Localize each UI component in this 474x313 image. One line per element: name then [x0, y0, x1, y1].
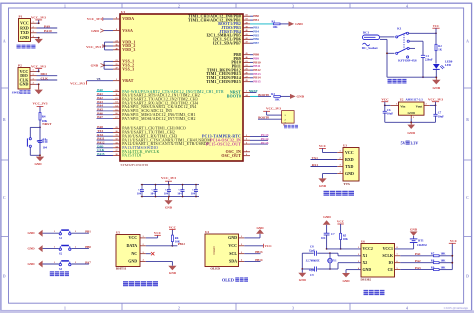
resistor R9 10K net PA3 — [400, 266, 452, 271]
wire and net label PB5 — [250, 33, 259, 37]
svg-text:VCC_3V3: VCC_3V3 — [86, 45, 101, 49]
resistor R7 10K net PA1 — [400, 252, 452, 257]
svg-text:OLED: OLED — [210, 267, 220, 271]
svg-text:C1: C1 — [43, 137, 47, 141]
wire net label PA10 — [37, 29, 58, 33]
svg-text:10K: 10K — [175, 240, 181, 244]
sensor U5 pins — [126, 235, 145, 264]
svg-text:GND: GND — [91, 64, 99, 68]
svg-text:NRST: NRST — [249, 89, 259, 93]
svg-text:PB1: PB1 — [253, 18, 259, 22]
mcu U1 left pin stubs — [113, 19, 120, 156]
caption power circuit — [388, 79, 407, 84]
svg-text:U1: U1 — [121, 10, 125, 14]
svg-text:104: 104 — [43, 145, 48, 149]
svg-text:31: 31 — [115, 135, 117, 137]
svg-text:BOOT0: BOOT0 — [258, 115, 269, 119]
power port VCC_3V3 at P2 — [31, 64, 46, 72]
svg-text:VCC_3V3: VCC_3V3 — [266, 107, 281, 111]
svg-text:2: 2 — [75, 262, 76, 264]
svg-text:A: A — [3, 40, 6, 44]
wires K1 outputs — [409, 32, 437, 78]
wire and net label DIO — [97, 144, 114, 148]
wire and net label PB1 — [250, 18, 259, 22]
svg-text:1: 1 — [116, 79, 117, 81]
svg-text:PA9: PA9 — [44, 24, 50, 28]
display U4 vertical label — [212, 245, 216, 254]
svg-text:CSDN @GkDesign: CSDN @GkDesign — [444, 306, 469, 310]
svg-text:SWD: SWD — [12, 90, 20, 94]
svg-text:Vin: Vin — [400, 105, 405, 109]
svg-text:PB0: PB0 — [85, 245, 91, 249]
svg-text:GND: GND — [408, 111, 416, 115]
svg-text:GND: GND — [295, 22, 303, 26]
svg-text:CLK: CLK — [41, 76, 49, 80]
ground reset — [34, 155, 44, 166]
svg-text:VCC: VCC — [450, 239, 458, 243]
svg-text:U6: U6 — [361, 240, 365, 244]
power port VCC at U2 — [381, 97, 389, 105]
wire and net label PC14 — [250, 137, 269, 141]
power port VCC pull-ups — [449, 239, 458, 270]
svg-text:GND: GND — [407, 131, 415, 135]
svg-text:DS1302: DS1302 — [361, 278, 372, 282]
wire BOOT0 to boot header — [258, 115, 282, 119]
svg-text:104: 104 — [137, 193, 142, 196]
svg-text:2: 2 — [32, 26, 33, 28]
svg-text:SCLK: SCLK — [382, 254, 393, 258]
switch K1 KFT-DIP — [396, 27, 417, 63]
svg-text:Vout: Vout — [416, 105, 424, 109]
svg-text:R4: R4 — [42, 115, 46, 119]
svg-text:SDA: SDA — [229, 259, 237, 264]
ground crystal — [298, 268, 306, 282]
svg-text:PB15: PB15 — [253, 80, 261, 84]
ground U4 — [244, 226, 264, 238]
ground DS1302 — [342, 270, 361, 283]
svg-text:1: 1 — [413, 117, 414, 119]
svg-text:GND: GND — [169, 271, 177, 275]
svg-text:GND: GND — [20, 82, 29, 87]
wire and net label PB9 — [250, 57, 259, 61]
svg-text:VCC_3V3: VCC_3V3 — [31, 16, 46, 20]
wire and net label PB3 — [250, 26, 259, 30]
svg-text:10K: 10K — [441, 253, 447, 256]
power port VCC_3V3 at VDDA — [87, 17, 113, 21]
svg-text:VB: VB — [97, 78, 101, 81]
svg-text:KFT-DIP-4X8: KFT-DIP-4X8 — [398, 58, 417, 62]
svg-text:PA10: PA10 — [44, 29, 52, 33]
svg-text:VCC: VCC — [129, 235, 138, 240]
wire and net label TX1 — [97, 129, 114, 133]
svg-text:GND: GND — [319, 184, 327, 188]
wire and net label PB6 — [250, 37, 259, 41]
svg-text:PA7: PA7 — [97, 115, 103, 119]
svg-text:10uF: 10uF — [438, 114, 444, 118]
power port VCC_3V3 reset — [33, 101, 48, 112]
wire and net label PA0 — [97, 88, 114, 92]
svg-text:DATA: DATA — [126, 243, 137, 248]
svg-text:GND: GND — [342, 279, 350, 283]
svg-text:21: 21 — [245, 61, 247, 63]
svg-text:CE: CE — [388, 268, 394, 272]
power port VCC_3V3 at U2 out — [428, 97, 443, 114]
svg-text:U4: U4 — [205, 230, 209, 234]
svg-text:VCC: VCC — [345, 150, 354, 155]
svg-text:GND: GND — [297, 95, 305, 99]
ground U5 — [146, 261, 177, 275]
svg-text:B: B — [466, 118, 469, 122]
svg-text:P1: P1 — [19, 15, 23, 19]
svg-text:TTS: TTS — [344, 182, 351, 186]
svg-text:OLED: OLED — [212, 245, 216, 254]
svg-text:R8: R8 — [431, 259, 435, 262]
wire and net label PC15 — [250, 141, 269, 145]
ground U2 — [407, 122, 415, 135]
wire and net label PB8 — [250, 53, 259, 57]
svg-text:4: 4 — [406, 306, 408, 310]
svg-text:GND: GND — [299, 278, 307, 282]
crystal Y1 32.768kHZ — [302, 245, 337, 277]
svg-text:I2C1_SDA/PB7: I2C1_SDA/PB7 — [213, 41, 241, 45]
wire and net label PB0 — [250, 14, 259, 18]
svg-text:GND: GND — [433, 86, 441, 90]
wire and net label RX1 — [97, 133, 114, 137]
svg-text:VBAT: VBAT — [122, 79, 133, 83]
svg-text:GND: GND — [28, 247, 36, 251]
svg-text:42: 42 — [245, 38, 247, 40]
connector P2 pins — [20, 69, 37, 87]
svg-text:CR2032: CR2032 — [417, 243, 428, 247]
svg-text:GND: GND — [410, 227, 418, 231]
svg-text:2: 2 — [246, 135, 247, 137]
svg-text:2: 2 — [142, 244, 143, 246]
svg-text:12: 12 — [115, 98, 117, 100]
connector U3 pins — [337, 150, 354, 176]
wire and net label PB4 — [250, 30, 259, 34]
mcu U1 right pin stubs — [243, 16, 250, 156]
wire net label PA9 — [37, 24, 58, 28]
caption serial download port — [17, 45, 36, 49]
svg-text:1: 1 — [339, 151, 340, 153]
svg-text:41: 41 — [245, 34, 247, 36]
svg-text:GND: GND — [91, 29, 99, 33]
svg-text:VCC_3V3: VCC_3V3 — [70, 82, 85, 86]
svg-text:PC15: PC15 — [261, 141, 269, 145]
power port GND at VSS_1..3 with bus — [91, 61, 113, 69]
svg-text:32.768kHZ: 32.768kHZ — [306, 259, 320, 263]
wire X1 — [330, 253, 361, 256]
capacitor C6 10uF — [383, 105, 394, 123]
svg-text:PB7: PB7 — [253, 41, 259, 45]
svg-text:GND: GND — [128, 259, 137, 264]
svg-text:2: 2 — [339, 158, 340, 160]
svg-text:10K: 10K — [273, 25, 279, 29]
connector P2 body — [18, 68, 30, 90]
svg-text:104: 104 — [321, 236, 326, 240]
wire net label PB13 — [244, 250, 263, 254]
svg-text:VDDA: VDDA — [122, 17, 134, 21]
reset wires loop — [30, 127, 41, 157]
svg-text:PC15-OSC32_OUT: PC15-OSC32_OUT — [206, 142, 241, 146]
sensor U5 body — [116, 235, 140, 267]
wire and net label PA4 — [97, 104, 114, 108]
wire NRST with net label — [40, 120, 52, 127]
svg-text:GND: GND — [256, 226, 264, 230]
svg-text:2: 2 — [75, 231, 76, 233]
svg-text:1: 1 — [64, 4, 66, 8]
svg-text:GND: GND — [28, 262, 36, 266]
svg-text:X1: X1 — [363, 254, 368, 258]
cap bank rails — [141, 185, 199, 197]
mcu U1 left pin names — [122, 17, 224, 158]
wire and net label CLK — [97, 148, 114, 152]
mcu U1 pin numbers — [115, 15, 248, 157]
key S2 to net PB0 — [28, 245, 92, 255]
capacitor C1 104 — [38, 137, 48, 150]
svg-text:R7: R7 — [431, 253, 435, 256]
svg-text:2: 2 — [425, 103, 426, 105]
svg-text:VSSA: VSSA — [122, 29, 133, 33]
svg-text:PA3: PA3 — [415, 266, 421, 270]
svg-text:OSC_OUT: OSC_OUT — [221, 154, 241, 158]
svg-text:TIM1_CH3N/PB15: TIM1_CH3N/PB15 — [206, 80, 241, 84]
svg-text:A: A — [466, 40, 469, 44]
svg-text:B: B — [3, 118, 6, 122]
mcu U1 right pin names — [188, 14, 241, 158]
power port VCC at U4 — [244, 244, 272, 248]
connector U3 body — [343, 148, 359, 182]
caption boot select — [284, 126, 298, 127]
clock U6 body — [361, 244, 395, 278]
svg-text:D: D — [3, 275, 6, 279]
wire and net label PA5 — [97, 108, 114, 112]
resistor R1 10K on BOOT1 — [250, 20, 289, 29]
wire X2 — [330, 263, 361, 269]
svg-text:U3: U3 — [343, 144, 347, 148]
resistor R4 10K — [39, 113, 48, 124]
wire and net label PA12 — [97, 141, 114, 145]
display U4 pins — [228, 235, 244, 264]
wire net label RX1 — [311, 163, 338, 167]
caption voice output module — [324, 191, 355, 196]
svg-text:IO: IO — [388, 261, 393, 265]
svg-text:1: 1 — [358, 247, 359, 249]
regulator U2 pins and labels — [390, 97, 430, 119]
connector P1 body — [19, 19, 31, 42]
power port VCC at U3 — [319, 144, 337, 152]
ground U3 — [318, 174, 337, 188]
svg-text:GND: GND — [165, 205, 173, 209]
svg-text:PA7/SPI1_MOSI/ADC12_IN7/TIM3_C: PA7/SPI1_MOSI/ADC12_IN7/TIM3_CH2 — [122, 117, 195, 121]
svg-text:SCL: SCL — [229, 251, 237, 256]
wire and net label PB14 — [250, 76, 261, 80]
svg-text:LED: LED — [445, 63, 451, 67]
svg-text:RXD: RXD — [345, 157, 354, 162]
svg-text:DC_Socket: DC_Socket — [362, 46, 379, 50]
svg-text:PA2: PA2 — [415, 259, 421, 263]
svg-text:GND: GND — [363, 268, 372, 272]
svg-text:1: 1 — [285, 115, 286, 117]
svg-text:2: 2 — [178, 306, 180, 310]
ground cap bank — [164, 197, 172, 210]
capacitor C5 104 — [177, 184, 184, 198]
svg-text:3: 3 — [292, 306, 294, 310]
svg-text:1: 1 — [54, 231, 55, 233]
svg-text:2: 2 — [241, 244, 242, 246]
capacitor C2 104 — [137, 184, 144, 198]
wire and net label PA1 — [97, 92, 114, 96]
svg-text:NC: NC — [131, 251, 137, 256]
svg-text:AMS1117-3.3: AMS1117-3.3 — [406, 97, 424, 101]
svg-text:GND: GND — [34, 162, 42, 166]
svg-text:1: 1 — [64, 306, 66, 310]
boot select header J1 — [282, 111, 295, 127]
power port VCC at U5 — [146, 231, 162, 238]
wire and net label PA11 — [97, 137, 114, 141]
svg-text:VCC: VCC — [265, 244, 273, 248]
svg-text:STM32F103C8T6: STM32F103C8T6 — [121, 163, 149, 167]
svg-text:GND: GND — [345, 171, 354, 176]
svg-text:C: C — [3, 196, 6, 200]
svg-text:BOOT0: BOOT0 — [227, 95, 241, 99]
resistor R2 1K — [435, 33, 443, 63]
wire and net label PA3 — [97, 100, 114, 104]
power port VCC_3V3 at VDD_1..3 with bus — [86, 42, 113, 50]
svg-text:TXD: TXD — [345, 164, 354, 169]
svg-text:1: 1 — [54, 262, 55, 264]
power port VCC_3V3 at P1 — [31, 16, 46, 24]
svg-text:10uF: 10uF — [387, 112, 393, 116]
svg-text:104: 104 — [177, 193, 182, 196]
power port VCC_3V3 to boot header — [263, 107, 281, 115]
svg-text:220uF: 220uF — [425, 58, 433, 62]
wire and net label PB13 — [250, 72, 261, 76]
svg-text:PA15/JTDI: PA15/JTDI — [122, 154, 142, 158]
svg-text:P2: P2 — [18, 64, 22, 68]
wire and net label PA2 — [97, 96, 114, 100]
display U4 body — [205, 234, 239, 267]
wire net label DIO — [37, 72, 58, 76]
regulator U2 AMS1117-3.3 body — [399, 102, 425, 115]
wire and net label PB7 — [250, 41, 259, 45]
power port VCC_3V3 cap bank — [161, 176, 176, 184]
net label NRST — [249, 89, 259, 93]
svg-text:4: 4 — [406, 4, 408, 8]
connector P1 pins — [20, 21, 36, 40]
svg-text:VCC: VCC — [228, 243, 237, 248]
capacitor C4 104 — [164, 184, 171, 198]
svg-text:DC1: DC1 — [363, 31, 370, 35]
svg-text:PA7: PA7 — [85, 260, 91, 264]
svg-text:11: 11 — [115, 94, 117, 96]
svg-text:2: 2 — [285, 119, 286, 121]
pushbutton K2 reset — [27, 138, 47, 148]
caption temperature humidity sensor — [123, 281, 158, 286]
capacitor C3 104 — [150, 184, 157, 198]
svg-text:RX1: RX1 — [312, 163, 319, 167]
svg-text:C: C — [466, 196, 469, 200]
svg-text:GND: GND — [228, 235, 237, 240]
svg-text:10K: 10K — [275, 97, 281, 101]
svg-text:U2: U2 — [400, 97, 404, 101]
svg-text:1: 1 — [54, 246, 55, 248]
wire and net label PA7 — [97, 115, 114, 119]
key S3 to net PA7 — [28, 260, 92, 270]
svg-text:2: 2 — [178, 4, 180, 8]
wire and net label PB12 — [250, 68, 261, 72]
svg-text:1: 1 — [142, 236, 143, 238]
svg-text:Y1: Y1 — [333, 258, 337, 262]
wire and net label PB10 — [250, 60, 261, 64]
key S1 to net PB1 — [28, 230, 92, 240]
clock U6 pins — [358, 247, 400, 272]
resistor R3 10K on BOOT0 — [250, 92, 290, 102]
svg-text:X2: X2 — [363, 261, 368, 265]
ground at P1 — [35, 37, 43, 44]
svg-text:K1: K1 — [397, 27, 401, 31]
svg-text:10K: 10K — [441, 259, 447, 262]
caption independent keys — [50, 271, 69, 276]
svg-text:C7: C7 — [331, 232, 335, 236]
capacitor C6 104 — [191, 184, 198, 198]
no connect NC — [146, 252, 155, 255]
ground battery — [410, 227, 418, 236]
svg-text:3: 3 — [292, 4, 294, 8]
svg-text:NRST: NRST — [42, 122, 52, 126]
power port VCC_3V3 at VBAT — [70, 78, 113, 86]
svg-text:VDD_3: VDD_3 — [122, 48, 135, 52]
ground at P2 — [35, 83, 43, 94]
svg-text:10K: 10K — [343, 237, 349, 241]
wire net label TX1 — [311, 156, 338, 160]
svg-text:VCC: VCC — [433, 24, 440, 28]
dc socket DC1 — [362, 31, 380, 51]
wires DC1 to K1 — [380, 37, 395, 77]
svg-text:GND: GND — [28, 231, 36, 235]
svg-text:VCC: VCC — [169, 225, 177, 229]
svg-text:PB14: PB14 — [255, 258, 263, 262]
svg-text:5V: 5V — [401, 140, 406, 145]
wire and net label PC13 — [250, 133, 269, 137]
power port GND at VSSA — [91, 29, 113, 33]
wire bottom rail U2 — [385, 119, 436, 124]
resistor R6 10K pull-up — [169, 225, 181, 245]
wire net label CLK — [37, 76, 58, 80]
svg-text:3.3V: 3.3V — [410, 140, 418, 145]
svg-text:2: 2 — [75, 246, 76, 248]
power port GND right of R1 — [289, 21, 304, 26]
svg-text:12pF: 12pF — [309, 268, 315, 272]
svg-text:VCC_3V3: VCC_3V3 — [428, 97, 443, 101]
capacitor C7 104 clock — [321, 232, 335, 250]
mcu U1 body — [120, 14, 243, 161]
wire and net label PB11 — [250, 64, 261, 68]
svg-text:104: 104 — [164, 193, 169, 196]
svg-text:VCC: VCC — [154, 231, 162, 235]
svg-text:R9: R9 — [431, 266, 435, 269]
svg-text:VSS_3: VSS_3 — [122, 67, 134, 71]
caption clock module — [364, 290, 385, 295]
svg-text:VCC_3V3: VCC_3V3 — [33, 101, 48, 105]
svg-text:VCC1: VCC1 — [383, 247, 393, 251]
wire net label PB14 — [244, 258, 263, 262]
svg-text:32: 32 — [115, 139, 117, 141]
capacitor C7 10uF — [433, 111, 444, 123]
svg-text:2: 2 — [32, 74, 33, 76]
svg-text:PA1: PA1 — [415, 252, 421, 256]
power port GND right of R3 — [290, 94, 305, 99]
